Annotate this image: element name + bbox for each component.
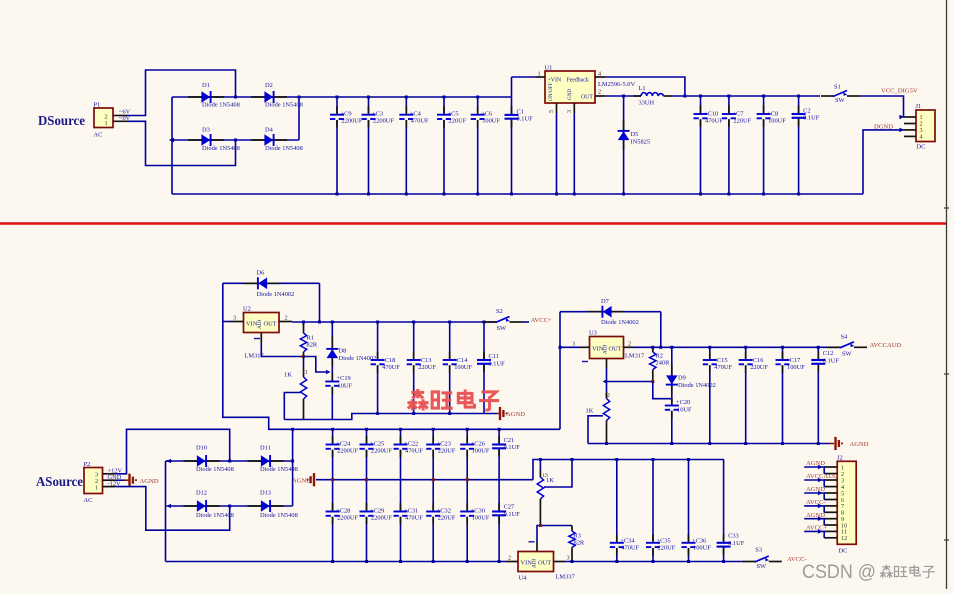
wire P2 +12V to bridge2 top (115, 429, 230, 474)
sheet border right (944, 0, 949, 589)
svg-text:D2: D2 (265, 82, 273, 89)
svg-text:0.1UF: 0.1UF (803, 115, 820, 122)
svg-text:+C18: +C18 (381, 357, 395, 364)
svg-text:2200UF: 2200UF (371, 447, 392, 454)
net label AVCC- J2 (804, 499, 825, 512)
svg-text:D4: D4 (265, 127, 274, 134)
capacitor C26 (460, 428, 490, 480)
section title ASource (36, 475, 83, 490)
svg-text:1K: 1K (586, 407, 594, 414)
svg-text:D5: D5 (631, 131, 639, 138)
svg-text:t2: t2 (605, 392, 610, 399)
svg-text:470UF: 470UF (705, 118, 723, 125)
svg-text:VCC_DIG5V: VCC_DIG5V (881, 88, 918, 95)
capacitor C11 (477, 321, 505, 414)
wire bridge2 diode row 2 (167, 504, 293, 509)
svg-text:+C17: +C17 (786, 357, 801, 364)
svg-text:LM2596-5.0V: LM2596-5.0V (598, 81, 635, 88)
svg-text:ON/OFF: ON/OFF (548, 82, 554, 101)
svg-text:220UF: 220UF (449, 118, 467, 125)
svg-text:AC: AC (94, 132, 103, 139)
net label GND (108, 474, 122, 481)
U1 pin 3 (566, 103, 574, 113)
svg-text:AGND: AGND (292, 478, 311, 485)
watermark red (407, 389, 499, 411)
svg-text:ADJ: ADJ (603, 344, 609, 354)
resistor R2 240R (650, 346, 670, 383)
svg-text:AVCC+: AVCC+ (806, 525, 827, 532)
svg-text:D12: D12 (196, 490, 207, 497)
diode D8 (326, 321, 376, 378)
wire U1 gnd pins to ground rail (555, 113, 576, 196)
svg-text:470UF: 470UF (714, 364, 732, 371)
connector J1 (904, 103, 935, 151)
svg-text:CSDN @: CSDN @ (802, 562, 876, 583)
potentiometer 1K (U3) (586, 382, 610, 446)
svg-text:U1: U1 (545, 65, 553, 72)
svg-text:OUT: OUT (264, 321, 277, 328)
red separator line (0, 222, 947, 225)
wire U1 feedback loop (605, 77, 686, 98)
svg-text:SW: SW (757, 563, 768, 570)
power port AGND U3 bank (830, 437, 869, 450)
svg-text:240R: 240R (656, 360, 671, 367)
resistor R1 82R (300, 321, 318, 359)
capacitor C10 (694, 95, 724, 196)
svg-text:1: 1 (95, 484, 98, 491)
svg-text:Diode 1N5408: Diode 1N5408 (196, 512, 234, 519)
svg-text:100UF: 100UF (472, 514, 490, 521)
capacitor C25 (360, 428, 393, 480)
wire raw -12 bottom rail (166, 561, 507, 563)
svg-text:R2: R2 (656, 353, 663, 360)
net label DGND (874, 123, 893, 130)
svg-text:2: 2 (285, 315, 288, 322)
svg-text:J2: J2 (837, 455, 843, 462)
diode D11 (248, 445, 298, 474)
svg-text:+C8: +C8 (767, 111, 778, 118)
svg-text:Diode 1N5408: Diode 1N5408 (202, 145, 240, 152)
diode D4 (251, 127, 303, 153)
U3 adj pin (582, 359, 653, 384)
section title DSource (38, 114, 85, 129)
svg-text:10UF: 10UF (338, 383, 353, 390)
svg-text:10UF: 10UF (677, 407, 692, 414)
svg-text:Diode 1N4002: Diode 1N4002 (257, 291, 295, 298)
U1 pin 1 (536, 71, 546, 78)
U3 pin 2 (624, 340, 635, 347)
svg-text:Diode 1N5408: Diode 1N5408 (196, 466, 234, 473)
capacitor C28 (326, 480, 359, 563)
svg-text:82R: 82R (307, 342, 318, 349)
svg-text:2200UF: 2200UF (342, 118, 363, 125)
net label AGND J2 (804, 512, 825, 525)
wire S1 to J1 pin1 (860, 96, 904, 119)
svg-text:SW: SW (835, 97, 846, 104)
capacitor C8 (757, 95, 787, 196)
wire U3 ground rail (588, 443, 830, 445)
net label VCC_DIG5V (881, 88, 918, 95)
svg-text:220UF: 220UF (438, 447, 456, 454)
svg-text:SW: SW (842, 350, 853, 357)
svg-text:C27: C27 (504, 504, 515, 511)
capacitor C3 (362, 96, 395, 196)
potentiometer 1K (U4) (537, 458, 573, 526)
wire P1 pin1 to bridge bottom (128, 121, 236, 165)
wire adj node to D8 bottom (304, 357, 331, 375)
svg-text:Diode 1N5408: Diode 1N5408 (260, 512, 298, 519)
svg-text:AC: AC (84, 497, 93, 504)
connector P1 (94, 102, 129, 139)
capacitor C20 (665, 397, 692, 445)
svg-text:100UF: 100UF (472, 447, 490, 454)
capacitor C23 (426, 428, 456, 480)
svg-text:C11: C11 (489, 353, 499, 360)
svg-text:220UF: 220UF (658, 545, 676, 552)
svg-text:1K: 1K (284, 371, 292, 378)
svg-text:0.1UF: 0.1UF (517, 116, 534, 123)
U1 pin 4 (595, 71, 605, 78)
U1 pin 5 (548, 103, 557, 113)
diode D10 (184, 445, 234, 474)
capacitor C1 (505, 77, 536, 196)
capacitor C21 (492, 428, 520, 480)
wire D7 right vertical (659, 312, 662, 349)
svg-text:0.1UF: 0.1UF (489, 361, 506, 368)
wire output rail after L1 (671, 95, 820, 97)
svg-text:4: 4 (920, 134, 923, 141)
wire S2 out (523, 321, 530, 323)
svg-text:S1: S1 (834, 84, 841, 91)
svg-text:D1: D1 (202, 82, 210, 89)
svg-text:100UF: 100UF (768, 118, 786, 125)
U4 adj stub (529, 542, 538, 552)
svg-text:t3: t3 (543, 472, 548, 479)
diode D12 (184, 490, 234, 520)
capacitor C19 (325, 373, 352, 420)
svg-text:220UF: 220UF (418, 364, 436, 371)
svg-text:C1: C1 (517, 109, 524, 116)
wire R2 bottom to D9 (653, 382, 672, 399)
wire U3 out rail (634, 346, 841, 348)
svg-text:100UF: 100UF (787, 364, 805, 371)
wire bridge2 right vertical (291, 428, 294, 506)
capacitor C31 (394, 480, 424, 563)
svg-text:S4: S4 (841, 333, 849, 340)
capacitor C32 (426, 480, 456, 563)
capacitor C14 (443, 321, 473, 416)
svg-text:D13: D13 (260, 490, 271, 497)
svg-text:ADJ: ADJ (257, 319, 263, 329)
svg-text:DC: DC (839, 548, 848, 555)
connector P2 (84, 461, 116, 504)
switch S2 (484, 308, 523, 332)
net label AVCCAUD (870, 342, 902, 349)
svg-text:5: 5 (548, 110, 555, 113)
value label LM2596-5.0V (598, 81, 635, 88)
capacitor C35 (646, 458, 676, 563)
net label AGND J2 (804, 486, 825, 499)
svg-text:12: 12 (841, 535, 847, 542)
net label AVCCAUD J2 (804, 473, 838, 486)
diode D7 (560, 298, 661, 326)
svg-text:AGND: AGND (140, 478, 159, 485)
svg-text:SW: SW (497, 325, 508, 332)
svg-text:S3: S3 (755, 547, 762, 554)
potentiometer 1K (U2) (284, 357, 308, 420)
svg-text:+C7: +C7 (732, 111, 744, 118)
net label ~0V (119, 115, 131, 122)
U1 pin 2 (595, 89, 605, 97)
svg-text:t1: t1 (303, 369, 308, 376)
svg-text:Diode 1N4002: Diode 1N4002 (339, 355, 377, 362)
svg-text:100UF: 100UF (693, 545, 711, 552)
svg-text:3: 3 (567, 555, 570, 562)
svg-text:+C16: +C16 (749, 357, 763, 364)
svg-text:+C13: +C13 (417, 357, 431, 364)
diode D13 (248, 490, 298, 520)
diode D5 1N5825 (618, 96, 650, 196)
U3 pin 3 (559, 340, 590, 349)
wire U2 out rail (292, 321, 497, 323)
net label AVCC- (787, 556, 807, 563)
svg-text:D8: D8 (339, 348, 347, 355)
wire raw +12 rail (293, 428, 560, 430)
svg-text:1: 1 (538, 71, 541, 78)
net label ~6V (119, 108, 131, 115)
svg-text:3: 3 (572, 340, 575, 347)
capacitor C22 (394, 428, 424, 480)
diode D3 (188, 127, 240, 153)
svg-text:2: 2 (508, 555, 511, 562)
capacitor C6 (471, 96, 501, 196)
svg-text:U3: U3 (589, 330, 597, 337)
switch S3 (743, 547, 782, 571)
regulator U2 LM317 (243, 306, 279, 360)
svg-text:2200UF: 2200UF (371, 514, 392, 521)
svg-text:L1: L1 (639, 85, 646, 92)
capacitor C4 (399, 96, 429, 196)
capacitor C24 (326, 428, 359, 480)
svg-text:470UF: 470UF (405, 514, 423, 521)
wire bridge right vertical (298, 97, 300, 140)
svg-text:3: 3 (233, 315, 236, 322)
svg-text:AVCCAUD: AVCCAUD (870, 342, 902, 349)
svg-text:0.1UF: 0.1UF (504, 444, 521, 451)
wire positive rail top (299, 96, 512, 98)
svg-text:D3: D3 (202, 127, 210, 134)
net label -12V (108, 480, 122, 487)
wire diode row 1 (172, 96, 301, 99)
svg-text:D9: D9 (678, 375, 686, 382)
diode D2 (251, 82, 303, 109)
power port AGND mid rail (292, 473, 533, 486)
capacitor C29 (360, 480, 393, 563)
svg-text:220UF: 220UF (438, 514, 456, 521)
svg-text:ADJ: ADJ (532, 558, 538, 568)
capacitor C33 (717, 460, 745, 564)
capacitor C34 (610, 458, 640, 563)
capacitor C27 (492, 480, 520, 563)
svg-text:C33: C33 (728, 533, 739, 540)
svg-text:GND: GND (567, 89, 573, 100)
regulator U3 LM317 (589, 330, 645, 360)
svg-text:2: 2 (628, 340, 631, 347)
net label AVCC+ (531, 317, 552, 324)
svg-text:0.1UF: 0.1UF (728, 540, 745, 547)
svg-text:ASource: ASource (36, 475, 83, 490)
svg-text:U4: U4 (519, 575, 528, 582)
svg-text:0.1UF: 0.1UF (504, 511, 521, 518)
svg-text:P1: P1 (94, 102, 101, 109)
wire D6 right vertical (318, 283, 321, 323)
switch S1 (821, 84, 860, 105)
svg-text:D10: D10 (196, 445, 207, 452)
svg-text:470UF: 470UF (382, 364, 400, 371)
connector J2 (824, 455, 856, 555)
svg-text:470UF: 470UF (621, 545, 639, 552)
wire P2 -12V to bridge2 bottom (115, 487, 230, 531)
svg-text:Diode 1N5408: Diode 1N5408 (202, 102, 240, 109)
svg-text:+C19: +C19 (337, 375, 351, 382)
inductor L1 (634, 85, 671, 107)
capacitor C13 (407, 321, 437, 416)
U4 pin 2 (507, 555, 519, 562)
svg-text:D11: D11 (260, 445, 271, 452)
svg-text:33UH: 33UH (639, 100, 655, 107)
svg-text:C2: C2 (803, 108, 810, 115)
svg-text:Diode 1N5408: Diode 1N5408 (265, 145, 303, 152)
svg-text:+C14: +C14 (453, 357, 468, 364)
svg-text:2200UF: 2200UF (337, 447, 358, 454)
svg-text:LM337: LM337 (556, 574, 576, 581)
svg-text:OUT: OUT (538, 560, 551, 567)
svg-text:AGND: AGND (806, 460, 825, 467)
capacitor C18 (371, 321, 401, 416)
resistor R3 82R (569, 526, 585, 564)
svg-text:Diode 1N5408: Diode 1N5408 (260, 466, 298, 473)
svg-text:C12: C12 (823, 350, 834, 357)
capacitor C12 (811, 346, 839, 445)
wire U2 vin vertical (223, 283, 293, 429)
svg-text:2200UF: 2200UF (373, 118, 394, 125)
wire bridge left vertical (171, 97, 173, 194)
svg-text:+C15: +C15 (713, 357, 727, 364)
net label +12V (108, 467, 123, 474)
capacitor C7 (722, 95, 752, 196)
svg-text:DC: DC (917, 144, 926, 151)
svg-text:0.1UF: 0.1UF (823, 358, 840, 365)
svg-text:220UF: 220UF (750, 364, 768, 371)
svg-text:2200UF: 2200UF (337, 514, 358, 521)
svg-text:Feedback: Feedback (567, 78, 589, 84)
svg-text:D7: D7 (601, 298, 610, 305)
svg-text:1: 1 (105, 120, 108, 127)
svg-text:OUT: OUT (581, 95, 593, 101)
svg-text:DSource: DSource (38, 114, 85, 129)
wire U2 adj network ground (284, 414, 497, 420)
U2 pin 2 (279, 315, 292, 322)
wire raw rail to U3 vin (559, 312, 561, 430)
capacitor C15 (703, 346, 733, 445)
svg-text:J1: J1 (916, 103, 922, 110)
svg-text:100UF: 100UF (482, 118, 500, 125)
capacitor C36 (682, 458, 712, 563)
wire bridge2 diode row 1 (167, 459, 293, 464)
power port AGND at P2 (115, 474, 159, 487)
watermark CSDN grey (802, 562, 935, 583)
wire U4 agnd top rail (533, 460, 724, 480)
svg-text:3: 3 (566, 110, 573, 113)
wire ground rail bottom (172, 193, 863, 195)
power port AGND U2 bank (497, 407, 525, 420)
net label AVCC+ J2 (804, 525, 827, 538)
svg-text:AGND: AGND (806, 512, 825, 519)
svg-text:P2: P2 (84, 461, 91, 468)
svg-text:IN5825: IN5825 (631, 139, 651, 146)
svg-text:470UF: 470UF (405, 447, 423, 454)
wire diode row 2 (170, 138, 300, 143)
U2 adj pin (254, 333, 304, 357)
svg-text:82R: 82R (574, 540, 585, 547)
wire U4 out rail (565, 561, 744, 563)
svg-text:AGND: AGND (806, 486, 825, 493)
svg-text:R3: R3 (574, 533, 581, 540)
svg-text:D6: D6 (257, 270, 265, 277)
wire DGND J1 pin3 to ground rail (863, 128, 904, 194)
capacitor C9 (330, 96, 363, 196)
U2 pin 3 (223, 315, 244, 322)
svg-text:2: 2 (598, 89, 601, 96)
svg-text:100UF: 100UF (454, 364, 472, 371)
capacitor C5 (437, 96, 467, 196)
regulator U1 LM2596 (545, 65, 596, 104)
wire U1 out to L1 (605, 95, 641, 98)
diode D1 (188, 82, 240, 109)
svg-text:AGND: AGND (850, 441, 869, 448)
net label AGND J2 (804, 460, 825, 473)
wire bridge2 left vertical (166, 461, 173, 562)
svg-text:OUT: OUT (609, 346, 622, 353)
svg-text:470UF: 470UF (411, 118, 429, 125)
svg-text:R1: R1 (307, 335, 314, 342)
svg-text:AVCCAUD: AVCCAUD (806, 473, 838, 480)
svg-text:AVCC+: AVCC+ (531, 317, 552, 324)
svg-text:VIN: VIN (521, 560, 533, 567)
wire P1 pin2 to bridge top (128, 70, 236, 116)
U4 pin 3 (554, 555, 570, 562)
wire U4 adj run (537, 524, 572, 542)
svg-text:+C10: +C10 (704, 111, 718, 118)
svg-text:U2: U2 (243, 306, 251, 313)
svg-text:Diode 1N5408: Diode 1N5408 (265, 102, 303, 109)
switch S4 (828, 333, 867, 357)
svg-text:C21: C21 (504, 437, 515, 444)
regulator U4 LM337 (518, 552, 575, 582)
capacitor C2 (792, 95, 820, 196)
capacitor C30 (460, 480, 490, 563)
diode D6 (223, 270, 320, 298)
capacitor C16 (739, 346, 769, 445)
svg-text:VIN: VIN (246, 321, 258, 328)
svg-text:Diode 1N4002: Diode 1N4002 (601, 319, 639, 326)
svg-text:S2: S2 (496, 308, 503, 315)
diode D9 (666, 346, 716, 402)
svg-text:220UF: 220UF (733, 118, 751, 125)
svg-text:4: 4 (598, 71, 601, 78)
junction bridge2 (228, 460, 231, 508)
capacitor C17 (776, 346, 806, 445)
